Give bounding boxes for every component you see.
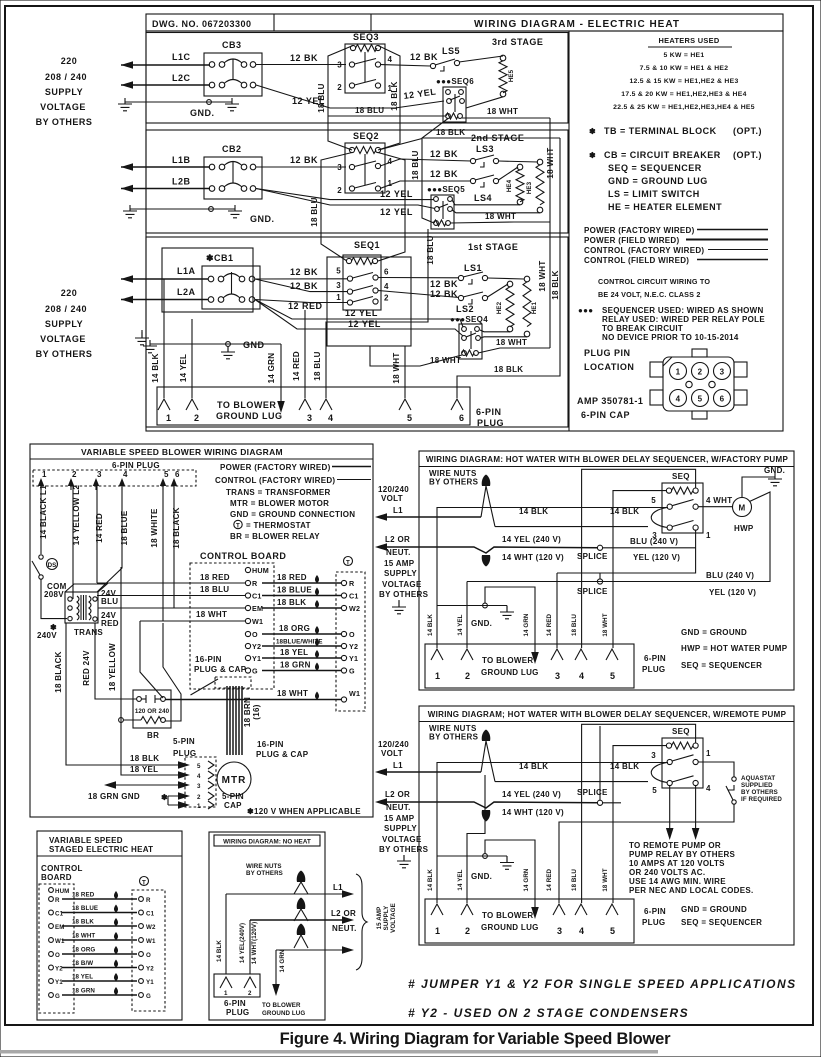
ground bus row2 — [123, 205, 275, 224]
svg-text:VOLT: VOLT — [381, 494, 403, 503]
svg-text:18 BRN: 18 BRN — [243, 697, 252, 727]
svg-text:2: 2 — [337, 83, 342, 92]
svg-text:YEL (120 V): YEL (120 V) — [633, 553, 680, 562]
wire SEQ contact4 down arrow — [692, 786, 700, 840]
svg-text:3: 3 — [307, 413, 313, 423]
svg-text:T: T — [346, 560, 350, 567]
bottom pin 5 — [606, 649, 618, 681]
supply labels left — [378, 740, 429, 854]
svg-text:18 BLUE: 18 BLUE — [120, 510, 129, 545]
svg-text:18 BLU: 18 BLU — [426, 235, 435, 264]
svg-text:6: 6 — [720, 395, 725, 404]
svg-text:✽: ✽ — [589, 151, 596, 160]
ground lug riser 14 GRN — [485, 587, 539, 664]
svg-text:1: 1 — [166, 413, 172, 423]
svg-text:12 RED: 12 RED — [288, 301, 323, 311]
svg-text:HE = HEATER ELEMENT: HE = HEATER ELEMENT — [608, 202, 722, 212]
wire 14 YELLOW L2 drop — [72, 485, 81, 599]
svg-text:O: O — [252, 630, 258, 639]
wire W1 row 18 WHT — [140, 610, 245, 621]
board terminal R — [245, 579, 258, 588]
svg-text:SEQ = SEQUENCER: SEQ = SEQUENCER — [681, 918, 762, 927]
svg-text:HUM: HUM — [55, 888, 69, 895]
svg-text:14 GRN: 14 GRN — [523, 868, 530, 891]
svg-text:18 YEL: 18 YEL — [72, 974, 93, 981]
svg-text:3: 3 — [337, 163, 342, 172]
wire 14 BLK pin1 to contact 5 — [437, 507, 668, 648]
bottom pin 2 — [461, 904, 473, 936]
svg-text:O: O — [55, 952, 60, 959]
svg-text:HE2: HE2 — [496, 301, 503, 314]
svg-text:18 BLK: 18 BLK — [277, 598, 306, 607]
row Y2 — [49, 960, 155, 973]
svg-text:LS5: LS5 — [442, 46, 460, 56]
svg-text:18 ORG: 18 ORG — [72, 947, 95, 954]
svg-text:M: M — [739, 504, 746, 513]
hot water pump motor HWP — [733, 498, 754, 534]
svg-text:4: 4 — [197, 773, 201, 780]
terminal HUM — [49, 888, 70, 895]
svg-text:SUPPLY: SUPPLY — [384, 569, 417, 578]
thermostat T circle — [140, 877, 149, 887]
svg-text:SEQ3: SEQ3 — [353, 32, 379, 42]
coil feed 18 WHT — [613, 746, 666, 903]
ribbon cable 18 BRN — [227, 686, 261, 755]
svg-text:BY OTHERS: BY OTHERS — [379, 590, 429, 599]
wire L2 with dip — [375, 790, 598, 817]
wire HE3 bottom to SEQ5 — [452, 210, 540, 213]
heater element HE1 — [523, 276, 538, 337]
wire L1B with arrow — [121, 163, 210, 171]
svg-text:BY OTHERS: BY OTHERS — [36, 117, 93, 127]
svg-text:16-PIN: 16-PIN — [195, 655, 222, 664]
svg-text:SEQ1: SEQ1 — [354, 240, 380, 250]
svg-text:✽CB1: ✽CB1 — [206, 253, 234, 263]
label 240V — [37, 623, 57, 640]
svg-text:12 BK: 12 BK — [430, 279, 458, 289]
svg-text:GROUND LUG: GROUND LUG — [481, 923, 539, 932]
svg-text:17.5 & 20 KW = HE1,HE2,HE3 & H: 17.5 & 20 KW = HE1,HE2,HE3 & HE4 — [621, 91, 746, 98]
wire 18 YELLOW vertical — [108, 567, 190, 779]
svg-text:W2: W2 — [146, 924, 156, 931]
svg-text:W1: W1 — [252, 617, 263, 626]
svg-text:1: 1 — [435, 926, 441, 936]
wire CB1 to SEQ4 12 YEL upper — [255, 300, 463, 328]
ground bus row3 top — [118, 98, 239, 118]
title underline — [419, 721, 794, 723]
svg-text:18 BLACK: 18 BLACK — [54, 651, 63, 693]
heater element HE5 — [499, 55, 515, 97]
svg-text:12 BK: 12 BK — [430, 169, 458, 179]
svg-text:2: 2 — [72, 470, 77, 479]
svg-text:18 RED: 18 RED — [200, 573, 230, 582]
svg-text:18 BLU: 18 BLU — [411, 150, 420, 179]
svg-text:SEQ = SEQUENCER: SEQ = SEQUENCER — [681, 661, 762, 670]
wire 14 BLK nut to contact 3 — [495, 526, 648, 528]
svg-text:C1: C1 — [146, 911, 155, 918]
plug pin 1 — [158, 399, 172, 423]
svg-text:18 BLK: 18 BLK — [390, 81, 399, 110]
svg-text:W1: W1 — [55, 938, 65, 945]
wire type legend power factory — [584, 226, 768, 235]
ground cluster — [437, 603, 514, 628]
svg-text:VOLTAGE: VOLTAGE — [382, 835, 422, 844]
svg-text:2: 2 — [698, 368, 703, 377]
svg-text:14 RED: 14 RED — [546, 613, 553, 636]
bottom scan line — [0, 1050, 658, 1054]
svg-text:YEL (120 V): YEL (120 V) — [709, 588, 756, 597]
connector index holes — [686, 381, 692, 387]
Y1 wire to thermostat — [262, 648, 358, 663]
plug pin 5 — [160, 470, 169, 490]
svg-text:12 BK: 12 BK — [290, 155, 318, 165]
svg-text:4: 4 — [384, 282, 389, 291]
svg-text:18 WHT: 18 WHT — [392, 352, 401, 383]
svg-text:LOCATION: LOCATION — [584, 362, 634, 372]
board terminal EM — [245, 604, 263, 613]
svg-text:BR: BR — [147, 731, 159, 740]
row O — [49, 946, 151, 959]
svg-text:GND = GROUND CONNECTION: GND = GROUND CONNECTION — [230, 510, 355, 519]
wire SEQ2 pin1 to LS4 12 BK — [380, 169, 471, 189]
EM wire to thermostat W2 — [262, 598, 360, 613]
svg-text:3: 3 — [337, 61, 342, 70]
svg-text:5: 5 — [336, 267, 341, 276]
svg-text:18 B/W: 18 B/W — [72, 960, 93, 967]
svg-text:R: R — [146, 897, 151, 904]
sequencer SEQ2 — [337, 131, 392, 195]
svg-text:L2A: L2A — [177, 287, 196, 297]
plug pin 5 — [399, 399, 413, 423]
svg-text:18 BLK: 18 BLK — [551, 270, 560, 299]
bottom pin 1 — [431, 904, 443, 936]
svg-text:PLUG: PLUG — [642, 918, 665, 927]
wire CB2 to SEQ5 12 YEL upper — [256, 189, 434, 200]
svg-text:14 YEL: 14 YEL — [179, 354, 188, 382]
brace — [356, 874, 367, 970]
svg-text:SEQ = SEQUENCER: SEQ = SEQUENCER — [608, 163, 702, 173]
wire C1 row 18 BLU — [97, 585, 245, 596]
svg-text:POWER (FACTORY WIRED): POWER (FACTORY WIRED) — [220, 463, 331, 472]
title underline — [37, 855, 182, 857]
svg-text:✽: ✽ — [247, 807, 254, 816]
thermostat dashed box — [336, 572, 365, 711]
wire 14 BLK pin1 to contact 3 — [437, 762, 668, 903]
wire pin3 drop 14 RED — [546, 573, 557, 648]
svg-text:GND.: GND. — [190, 108, 215, 118]
plug pin 3 — [93, 470, 102, 490]
sequencer SEQ — [651, 727, 711, 795]
svg-text:PLUG: PLUG — [226, 1008, 249, 1017]
board terminal G — [245, 667, 258, 676]
svg-text:O: O — [146, 952, 151, 959]
wire type legend control field — [584, 256, 768, 265]
svg-text:14 BLK: 14 BLK — [427, 869, 434, 891]
svg-text:18 WHT: 18 WHT — [602, 868, 609, 891]
bottom pin 4 — [575, 904, 587, 936]
svg-text:15 AMP: 15 AMP — [384, 559, 415, 568]
svg-text:C1: C1 — [349, 592, 359, 601]
svg-text:18 BLU: 18 BLU — [310, 197, 319, 226]
sequencer SEQ3 — [337, 32, 392, 93]
svg-text:T: T — [236, 523, 240, 530]
svg-text:208 / 240: 208 / 240 — [45, 72, 87, 82]
svg-text:120/240: 120/240 — [378, 485, 409, 494]
svg-text:PLUG: PLUG — [642, 665, 665, 674]
svg-text:Y1: Y1 — [55, 979, 63, 986]
svg-text:120/240: 120/240 — [378, 740, 409, 749]
svg-text:VARIABLE SPEED: VARIABLE SPEED — [49, 836, 123, 845]
title block divider 1 — [273, 14, 275, 31]
svg-text:BLU (240 V): BLU (240 V) — [706, 571, 754, 580]
right dashed box — [132, 890, 165, 1011]
svg-text:12 YEL: 12 YEL — [403, 87, 437, 101]
sequencer SEQ5 auxiliary — [427, 185, 465, 229]
svg-text:HUM: HUM — [252, 566, 269, 575]
wire bracket to contacts — [651, 763, 667, 783]
svg-text:18 YELLOW: 18 YELLOW — [108, 643, 117, 691]
wire 14 RED drop pin3 — [292, 310, 305, 398]
svg-text:14 RED: 14 RED — [546, 868, 553, 891]
wire 18 WHITE drop — [150, 486, 163, 621]
wire SEQ to pump motor 4 WHT — [698, 496, 732, 507]
vertical bus 18 WHT — [549, 118, 551, 348]
wire L1C with arrow — [121, 61, 210, 69]
wire nut 1 — [294, 871, 308, 895]
svg-text:AMP 350781-1: AMP 350781-1 — [577, 396, 643, 406]
svg-text:G: G — [252, 667, 258, 676]
svg-text:6-PIN: 6-PIN — [644, 654, 666, 663]
wire SEQ6 to SEQ5 18 BLU vertical — [411, 119, 448, 224]
svg-text:18 BLU: 18 BLU — [571, 869, 578, 891]
heater element HE4 — [506, 164, 524, 205]
row C1 — [49, 905, 155, 918]
svg-text:O: O — [349, 630, 355, 639]
wire SEQ3 coil feed right — [378, 46, 400, 151]
svg-text:BY OTHERS: BY OTHERS — [246, 870, 283, 877]
svg-text:14 RED: 14 RED — [292, 351, 301, 381]
svg-text:14 BLACK L1: 14 BLACK L1 — [39, 485, 48, 539]
svg-text:CONTROL: CONTROL — [41, 864, 83, 873]
plug pin 1 — [38, 470, 47, 490]
svg-text:14 YELLOW L2: 14 YELLOW L2 — [72, 485, 81, 546]
aquastat labels — [741, 775, 782, 803]
legend power factory — [220, 463, 371, 472]
footnote star jumper wires — [161, 792, 190, 809]
svg-text:Y2: Y2 — [55, 966, 63, 973]
title underline — [30, 458, 373, 460]
svg-text:SEQUENCER USED: WIRED AS SHOWN: SEQUENCER USED: WIRED AS SHOWN — [602, 306, 764, 315]
L1 wire — [226, 883, 354, 974]
svg-text:4: 4 — [676, 395, 681, 404]
svg-text:# JUMPER Y1 & Y2 FOR SINGLE SP: # JUMPER Y1 & Y2 FOR SINGLE SPEED APPLIC… — [408, 977, 797, 991]
svg-text:RED 24V: RED 24V — [82, 650, 91, 686]
svg-text:18 GRN: 18 GRN — [280, 661, 311, 670]
svg-text:3rd STAGE: 3rd STAGE — [492, 37, 543, 47]
svg-text:5: 5 — [164, 470, 169, 479]
wire SEQ contact5 down arrow — [666, 786, 674, 840]
row EM W2 — [49, 918, 156, 931]
svg-text:TO BLOWER: TO BLOWER — [217, 400, 276, 410]
title block divider 2 — [370, 14, 372, 31]
rotated 15 amp supply voltage — [376, 903, 397, 933]
svg-text:CONTROL (FACTORY WIRED): CONTROL (FACTORY WIRED) — [584, 246, 704, 255]
svg-text:2: 2 — [197, 794, 201, 801]
svg-text:MTR = BLOWER MOTOR: MTR = BLOWER MOTOR — [230, 499, 329, 508]
svg-text:18 WHT: 18 WHT — [485, 212, 516, 221]
row R — [49, 891, 151, 904]
wire HE1 bottom to SEQ4 — [481, 337, 528, 338]
svg-text:TRANS: TRANS — [74, 628, 103, 637]
svg-text:DS: DS — [48, 562, 57, 569]
svg-text:18 WHITE: 18 WHITE — [150, 508, 159, 548]
svg-text:18 BLK: 18 BLK — [130, 754, 159, 763]
svg-text:VARIABLE SPEED BLOWER WIRING D: VARIABLE SPEED BLOWER WIRING DIAGRAM — [81, 447, 283, 457]
svg-text:GND = GROUND: GND = GROUND — [681, 905, 747, 914]
svg-text:# Y2 - USED ON 2 STAGE CONDENS: # Y2 - USED ON 2 STAGE CONDENSERS — [408, 1006, 689, 1020]
svg-text:18 GRN: 18 GRN — [72, 988, 95, 995]
bottom pin 5 — [606, 904, 618, 936]
svg-text:GND = GROUND: GND = GROUND — [681, 628, 747, 637]
svg-text:6-PIN PLUG: 6-PIN PLUG — [112, 461, 160, 470]
wire bracket to contacts — [651, 508, 667, 528]
svg-text:12 YEL: 12 YEL — [348, 319, 381, 329]
bottom pin 3 — [551, 649, 563, 681]
wire CB2 to SEQ2 pin3 12 BK — [256, 155, 346, 167]
svg-text:C1: C1 — [252, 592, 262, 601]
svg-text:5: 5 — [610, 926, 616, 936]
svg-text:CONTROL CIRCUIT WIRING TO: CONTROL CIRCUIT WIRING TO — [598, 277, 710, 286]
svg-text:BY OTHERS: BY OTHERS — [429, 733, 479, 742]
svg-text:WIRING DIAGRAM; HOT WATER WITH: WIRING DIAGRAM; HOT WATER WITH BLOWER DE… — [428, 710, 787, 719]
ground cluster — [437, 854, 514, 881]
svg-text:120 OR 240: 120 OR 240 — [135, 708, 170, 715]
svg-text:22.5 & 25 KW = HE1,HE2,HE3,HE4: 22.5 & 25 KW = HE1,HE2,HE3,HE4 & HE5 — [613, 104, 755, 111]
svg-text:18 BLACK: 18 BLACK — [172, 507, 181, 549]
coil feed 18 BLU — [582, 469, 696, 648]
svg-text:G: G — [55, 993, 60, 1000]
svg-text:18 BLU: 18 BLU — [571, 614, 578, 636]
svg-text:18 WHT: 18 WHT — [538, 260, 547, 291]
svg-text:4: 4 — [706, 784, 711, 793]
svg-text:5-PIN: 5-PIN — [173, 737, 195, 746]
svg-text:RELAY USED: WIRED PER RELAY PO: RELAY USED: WIRED PER RELAY POLE — [602, 315, 765, 324]
G wire to thermostat — [262, 661, 355, 676]
svg-text:R: R — [55, 897, 60, 904]
sequencer note — [578, 306, 765, 342]
svg-text:18 BLK: 18 BLK — [436, 128, 465, 137]
control board dashed box — [190, 563, 274, 689]
svg-text:18 YEL: 18 YEL — [280, 648, 308, 657]
wire 18 BLACK vertical to 5-pin — [54, 623, 190, 769]
2nd stage row box — [146, 130, 568, 233]
splice 2 — [577, 573, 608, 596]
svg-text:GND.: GND. — [471, 872, 492, 881]
svg-text:CB = CIRCUIT BREAKER: CB = CIRCUIT BREAKER — [604, 150, 721, 160]
wire nut 2 — [482, 555, 491, 567]
wire CB1 to SEQ4 12 YEL lower — [255, 300, 463, 337]
svg-text:4: 4 — [579, 926, 585, 936]
wire 14 BLK nut branch — [495, 781, 648, 783]
wire CB1 to SEQ1 pin3 12 BK — [255, 279, 347, 292]
blower motor MTR — [217, 762, 251, 796]
splice 1 — [577, 726, 621, 805]
svg-text:POWER (FACTORY WIRED): POWER (FACTORY WIRED) — [584, 226, 695, 235]
svg-text:5: 5 — [651, 496, 656, 505]
svg-text:●●●SEQ5: ●●●SEQ5 — [427, 185, 465, 194]
wire LS4 to HE4 — [499, 167, 519, 180]
svg-text:(16): (16) — [252, 704, 261, 719]
svg-text:STAGED ELECTRIC HEAT: STAGED ELECTRIC HEAT — [49, 845, 153, 854]
svg-text:AQUASTAT: AQUASTAT — [741, 775, 775, 782]
row G — [49, 987, 151, 1000]
variable speed blower box — [30, 444, 373, 817]
svg-text:PLUG: PLUG — [173, 749, 196, 758]
svg-text:T: T — [142, 880, 146, 887]
svg-text:12 BK: 12 BK — [290, 267, 318, 277]
svg-text:CAP: CAP — [224, 801, 242, 810]
svg-text:4: 4 — [328, 413, 334, 423]
wire SEQ contact 1 down — [557, 530, 696, 573]
svg-text:●●●SEQ4: ●●●SEQ4 — [450, 315, 488, 324]
title block border — [146, 14, 783, 31]
wire L2C with arrow — [121, 81, 210, 89]
svg-text:1: 1 — [706, 531, 711, 540]
wire LS5 to HE5 — [459, 56, 503, 62]
wire SEQ4 bottom 18 WHT left — [370, 346, 462, 366]
svg-text:3: 3 — [720, 368, 725, 377]
splice 1 — [577, 545, 696, 561]
row Y1 — [49, 973, 155, 986]
svg-text:GROUND LUG: GROUND LUG — [216, 411, 283, 421]
wire ribbon corner — [191, 679, 219, 695]
svg-text:BE 24 VOLT, N.E.C. CLASS 2: BE 24 VOLT, N.E.C. CLASS 2 — [598, 290, 701, 299]
svg-text:1: 1 — [706, 749, 711, 758]
svg-text:CONTROL (FACTORY WIRED): CONTROL (FACTORY WIRED) — [215, 476, 335, 485]
svg-text:6-PIN CAP: 6-PIN CAP — [581, 410, 630, 420]
svg-text:18 BLK: 18 BLK — [72, 919, 94, 926]
svg-text:12 BK: 12 BK — [290, 281, 318, 291]
plug pin 4 — [119, 470, 128, 490]
svg-text:= THERMOSTAT: = THERMOSTAT — [246, 521, 311, 530]
svg-text:WIRE NUTS: WIRE NUTS — [246, 863, 282, 870]
svg-text:(OPT.): (OPT.) — [733, 126, 762, 136]
sequencer SEQ4 auxiliary — [450, 315, 488, 359]
wire L2 with dip — [375, 535, 598, 562]
plug pin 2 — [186, 399, 200, 423]
svg-text:12.5 & 15 KW = HE1,HE2 & HE3: 12.5 & 15 KW = HE1,HE2 & HE3 — [629, 78, 738, 85]
svg-text:14 YEL: 14 YEL — [457, 869, 464, 890]
transformer TRANS — [65, 584, 107, 637]
wire 14 GRN down arrow — [267, 344, 285, 413]
svg-text:1: 1 — [197, 803, 201, 810]
svg-text:TO BLOWER: TO BLOWER — [482, 911, 533, 920]
footnote 120V — [247, 807, 361, 816]
svg-text:12 YEL: 12 YEL — [380, 207, 413, 217]
connector pin 3 — [714, 363, 731, 380]
svg-text:14 YEL (240 V): 14 YEL (240 V) — [502, 535, 561, 544]
thermostat T circle — [344, 557, 353, 567]
svg-text:14 WHT (120 V): 14 WHT (120 V) — [502, 553, 564, 562]
svg-text:PUMP RELAY BY OTHERS: PUMP RELAY BY OTHERS — [629, 850, 736, 859]
svg-text:GND.: GND. — [250, 214, 275, 224]
svg-text:1: 1 — [676, 368, 681, 377]
wire HE4 bottom to SEQ5 — [452, 200, 520, 205]
svg-text:5: 5 — [652, 786, 657, 795]
wire type legend control factory — [584, 246, 768, 255]
svg-text:5: 5 — [610, 671, 616, 681]
bottom pin 3 — [553, 904, 565, 936]
